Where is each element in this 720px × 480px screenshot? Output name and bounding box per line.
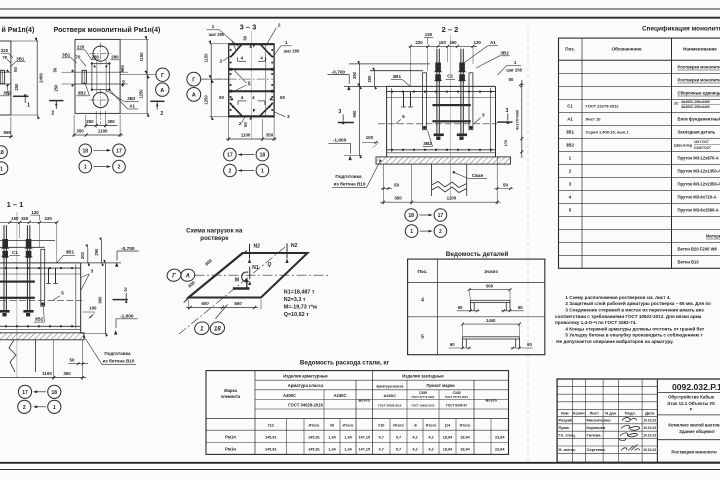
svg-text:18: 18 — [0, 150, 4, 156]
svg-text:А: А — [160, 88, 164, 94]
section mark 2 right — [150, 100, 164, 102]
dim arrows left view1 — [6, 69, 10, 72]
dim 1100 350 1-1 — [53, 340, 55, 380]
svg-text:4: 4 — [421, 298, 424, 304]
anchor bolt right 2-2 — [460, 49, 462, 134]
svg-text:элемента: элемента — [221, 394, 241, 399]
pile circle top — [93, 46, 108, 61]
svg-text:3В2: 3В2 — [127, 96, 136, 101]
svg-text:600: 600 — [486, 284, 494, 289]
svg-text:ГОСТ 34028-2016: ГОСТ 34028-2016 — [378, 403, 402, 407]
svg-text:Ведомость деталей: Ведомость деталей — [446, 250, 509, 258]
svg-text:280: 280 — [111, 55, 119, 60]
svg-text:18: 18 — [260, 153, 266, 159]
svg-text:Обозначение: Обозначение — [611, 46, 641, 52]
bent bar bottom-left — [231, 104, 242, 116]
bolt bottom plate left 1-1 — [0, 310, 10, 313]
svg-text:Итого: Итого — [393, 424, 404, 428]
extension lines top 2-2 — [410, 47, 412, 86]
axis circle 1 1-1 — [48, 400, 61, 413]
svg-text:Блок фундаментный: Блок фундаментный — [678, 117, 720, 122]
svg-text:3: 3 — [338, 109, 341, 115]
svg-text:18: 18 — [52, 390, 58, 396]
svg-text:1,34: 1,34 — [344, 448, 352, 452]
svg-text:10.10.23: 10.10.23 — [643, 419, 656, 423]
svg-text:С1: С1 — [567, 104, 573, 109]
svg-text:130: 130 — [425, 32, 433, 37]
svg-text:130: 130 — [31, 210, 39, 215]
svg-text:150: 150 — [11, 216, 19, 221]
load scheme plate — [188, 253, 307, 298]
svg-text:Сергеева: Сергеева — [587, 447, 606, 452]
svg-text:2: 2 — [160, 111, 163, 117]
spec table verticals — [581, 38, 583, 268]
svg-text:145,81: 145,81 — [308, 436, 320, 440]
spec table row lines — [559, 72, 720, 74]
rebar dots 3-3 edges — [230, 49, 232, 51]
svg-text:Пруток М3-12х2350-А: Пруток М3-12х2350-А — [678, 182, 720, 187]
svg-text:#6: #6 — [330, 424, 334, 428]
load scheme horiz axis — [195, 274, 331, 276]
svg-text:220: 220 — [77, 45, 85, 50]
bolt cross plate upper 1-1 — [0, 281, 34, 283]
svg-text:220: 220 — [415, 40, 423, 45]
fold mark dashed line — [527, 18, 529, 462]
svg-text:Не допускается опирание вибрат: Не допускается опирание вибраторов на ар… — [556, 338, 673, 344]
svg-text:3: 3 — [91, 269, 94, 275]
svg-text:18,94: 18,94 — [460, 436, 470, 440]
plan2 lower dims row2 — [73, 134, 123, 136]
svg-text:Лист 10: Лист 10 — [586, 117, 602, 122]
axis circle 2 1-1 — [18, 400, 31, 413]
section 3-3 cut trace — [250, 31, 252, 139]
svg-text:3В2: 3В2 — [78, 90, 87, 95]
svg-text:290: 290 — [94, 248, 99, 256]
svg-text:1440: 1440 — [486, 318, 496, 323]
svg-text:Всего: Всего — [359, 398, 371, 403]
svg-text:шаг 200: шаг 200 — [284, 48, 300, 53]
axis circle 2 2-2 — [434, 225, 447, 238]
svg-text:3В1: 3В1 — [62, 53, 71, 58]
pile circle bottom — [93, 92, 108, 107]
axis arrow 18-17 1-1 — [34, 391, 47, 393]
anchor bolt square plan — [92, 64, 110, 90]
svg-text:5: 5 — [61, 290, 64, 296]
axis arrow 18-17 3-3 — [238, 154, 254, 156]
axis circle 17 1-1 — [18, 385, 31, 398]
svg-text:[14: [14 — [445, 424, 451, 428]
axis circle 18 2-2 — [405, 209, 418, 222]
dim 1100 350 3-3 — [228, 117, 230, 141]
svg-text:А1: А1 — [490, 40, 496, 45]
svg-text:4А400С-200х4400: 4А400С-200х4400 — [681, 105, 710, 109]
axis circle G 3-3 — [187, 72, 201, 86]
svg-text:Поз.: Поз. — [417, 269, 427, 275]
svg-text:50: 50 — [394, 182, 399, 187]
svg-text:Подготовка: Подготовка — [104, 351, 131, 356]
anchor bolt right 1-1 — [26, 225, 28, 310]
axis circle 18 view1 — [0, 146, 7, 159]
moment M arc — [242, 272, 249, 282]
svg-text:4х170=680: 4х170=680 — [514, 109, 519, 130]
svg-text:Закладная деталь: Закладная деталь — [678, 130, 716, 135]
svg-text:Пруток М3-6х1560-А: Пруток М3-6х1560-А — [678, 208, 719, 213]
axis circle 2 plan2 — [113, 160, 126, 173]
steel table frame — [206, 371, 509, 455]
svg-text:50: 50 — [219, 95, 224, 100]
details row5 dim60 right — [511, 347, 534, 349]
svg-text:2: 2 — [118, 165, 121, 171]
svg-text:Обустройство Кабык: Обустройство Кабык — [668, 395, 715, 400]
rebar line top1 1-1 — [0, 267, 81, 269]
svg-text:50: 50 — [503, 182, 508, 187]
svg-text:900: 900 — [352, 110, 357, 118]
axis arrow 1-2 3-3 — [238, 170, 254, 172]
details row4 dim600 — [469, 289, 510, 291]
svg-text:Лист: Лист — [589, 410, 598, 415]
dim arrows plan2 left — [71, 69, 75, 72]
svg-text:220: 220 — [45, 216, 53, 221]
diag extension line — [216, 305, 228, 319]
section mark 2 left — [49, 100, 63, 102]
svg-text:147,15: 147,15 — [358, 448, 370, 452]
svg-text:0,7: 0,7 — [379, 448, 384, 452]
load scheme column base — [233, 287, 250, 289]
bent bar hook top-left — [238, 60, 246, 62]
details row5 sketch bar — [463, 337, 520, 339]
svg-text:5: 5 — [421, 335, 424, 341]
svg-text:23,84: 23,84 — [495, 436, 505, 440]
svg-text:200: 200 — [80, 251, 85, 259]
svg-text:3: 3 — [124, 287, 127, 293]
svg-text:Швеллер: Швеллер — [674, 143, 693, 148]
axis circle G sketch — [166, 268, 182, 283]
svg-text:950: 950 — [4, 130, 12, 135]
svg-text:1150: 1150 — [204, 53, 209, 63]
signature 4 — [621, 445, 639, 451]
force N2 left — [249, 244, 251, 259]
svg-text:А: А — [192, 93, 196, 99]
section 2-2 cut trace — [449, 35, 451, 200]
svg-text:А: А — [185, 274, 190, 280]
details row5 dim1440 — [463, 323, 520, 325]
plan2 lower dims row1 — [85, 125, 117, 127]
section 2-2 body outline — [387, 85, 496, 87]
axis circle 17 3-3 — [224, 148, 237, 161]
svg-text:Пруток М3-12х870-А: Пруток М3-12х870-А — [678, 156, 719, 161]
section 2-2 top dims — [409, 45, 477, 47]
svg-text:А1: А1 — [567, 117, 573, 122]
svg-text:3В1: 3В1 — [66, 250, 75, 255]
svg-text:5 Укладку бетона в опалубку пр: 5 Укладку бетона в опалубку производить … — [565, 332, 703, 338]
svg-text:Комплекс жилой вахтов: Комплекс жилой вахтов — [668, 422, 720, 427]
force N1 — [249, 267, 251, 280]
svg-text:350: 350 — [266, 133, 274, 138]
svg-text:Q: Q — [267, 262, 271, 268]
plan Rm1p beam band lines — [0, 71, 11, 73]
svg-text:Ведомость расхода стали, кг: Ведомость расхода стали, кг — [300, 360, 390, 367]
section 1-1 body outline — [0, 262, 81, 264]
svg-text:1,34: 1,34 — [328, 436, 336, 440]
svg-text:147,15: 147,15 — [358, 436, 370, 440]
svg-text:300: 300 — [107, 119, 115, 124]
svg-text:290: 290 — [352, 71, 357, 79]
anchor bolt left 2-2 — [436, 49, 438, 134]
svg-text:60: 60 — [450, 342, 455, 347]
axis circle 18 3-3 — [256, 148, 269, 161]
details row5 dim60 left — [449, 347, 472, 349]
axis circle 18 sketch — [209, 320, 226, 336]
bolt cross plate lower 1-1 — [0, 297, 34, 299]
axis circle 1 plan2 — [79, 160, 92, 173]
svg-text:Пруток М3-6х720-А: Пруток М3-6х720-А — [678, 195, 717, 200]
svg-text:Подп.: Подп. — [625, 410, 636, 415]
svg-text:Итого: Итого — [309, 424, 320, 428]
svg-text:А400С: А400С — [384, 393, 397, 398]
extension lines top 1-1 — [56, 223, 58, 263]
section mark 1 lower — [13, 95, 28, 97]
beam band lines plan — [75, 71, 120, 73]
section 3-3 bottom bar — [229, 115, 274, 117]
svg-text:#12: #12 — [268, 424, 274, 428]
svg-text:250: 250 — [14, 83, 19, 91]
svg-text:1: 1 — [212, 24, 215, 29]
axis arrow 18-17 — [94, 149, 111, 151]
svg-text:Прокат марки: Прокат марки — [426, 383, 455, 388]
svg-text:17: 17 — [22, 390, 28, 396]
svg-text:1100: 1100 — [447, 195, 457, 200]
svg-text:10.10.23: 10.10.23 — [643, 433, 656, 437]
svg-text:-8: -8 — [413, 424, 416, 428]
svg-text:1250: 1250 — [204, 95, 209, 105]
svg-text:Изделия закладные: Изделия закладные — [402, 374, 444, 379]
svg-text:100: 100 — [366, 135, 374, 140]
sheet frame bottom thin line — [0, 469, 720, 471]
svg-text:Сборочные единицы: Сборочные единицы — [678, 91, 720, 96]
bent bar top-left — [231, 45, 242, 57]
rebar line bottom2 1-1 — [0, 328, 81, 330]
ref line upper 1-1 — [0, 240, 55, 242]
svg-text:130: 130 — [474, 40, 482, 45]
svg-text:2: 2 — [51, 110, 54, 116]
svg-text:из бетона В10: из бетона В10 — [334, 181, 366, 187]
dim 900 1-1 — [105, 263, 107, 334]
ref line lower 1-1 — [0, 246, 45, 248]
svg-text:Ростверк монолитный Рм1н(4): Ростверк монолитный Рм1н(4) — [54, 26, 161, 34]
svg-text:шаг 200: шаг 200 — [506, 68, 522, 73]
bolt bottom plate right 1-1 — [23, 310, 33, 313]
axis arrow 18-17 2-2 — [419, 214, 432, 216]
axis circle 18 1-1 — [48, 385, 61, 398]
ref line upper 2-2 — [349, 63, 430, 65]
steel table verticals — [254, 371, 256, 455]
dim 200 2-2 — [374, 71, 376, 87]
svg-text:4 Концы стержней арматуры долж: 4 Концы стержней арматуры должны отстоят… — [565, 325, 704, 331]
plan Rm1p outline — [0, 41, 11, 115]
svg-text:3: 3 — [482, 112, 485, 118]
details table header row — [408, 281, 545, 283]
rebar line bottom1 2-2 — [387, 149, 496, 151]
svg-text:Дата: Дата — [645, 410, 655, 415]
svg-text:2 – 2: 2 – 2 — [442, 25, 459, 34]
svg-text:50: 50 — [13, 67, 18, 72]
channel 3V2 1-1 — [41, 249, 45, 306]
svg-text:3В1: 3В1 — [16, 57, 25, 62]
svg-text:Ростверки монолитн: Ростверки монолитн — [671, 450, 717, 455]
svg-text:600: 600 — [201, 301, 209, 306]
section 1-1 top dims — [0, 221, 58, 223]
axis circle 1 sketch — [193, 320, 210, 336]
svg-text:4,2: 4,2 — [428, 436, 433, 440]
axis arrow 1-2 2-2 — [420, 230, 432, 232]
svg-text:3: 3 — [506, 108, 509, 114]
svg-text:Здание общежит: Здание общежит — [679, 429, 715, 434]
section 3-3 inner vertical — [265, 44, 267, 117]
signature 1 — [622, 418, 637, 422]
svg-text:ГОСТ 19903-2015: ГОСТ 19903-2015 — [411, 403, 435, 407]
dim 290 1-1 — [101, 241, 103, 263]
svg-text:250: 250 — [86, 119, 94, 124]
section 3-3 axis line — [201, 78, 274, 80]
svg-text:1100: 1100 — [98, 129, 108, 134]
axis dash line 1-1 — [0, 299, 82, 301]
svg-text:2: 2 — [239, 121, 242, 127]
axis circle 18 plan2 — [79, 144, 92, 157]
signature 2 — [621, 425, 640, 430]
svg-text:145,81: 145,81 — [265, 436, 277, 440]
svg-text:А240С: А240С — [333, 393, 346, 398]
rebar line top2 2-2 — [387, 97, 496, 99]
hatched blinding layer 2-2 — [376, 157, 511, 164]
dim 200 1-1 — [87, 247, 89, 263]
svg-text:3В2: 3В2 — [500, 50, 509, 55]
svg-text:900: 900 — [98, 296, 103, 304]
svg-text:N2: N2 — [291, 243, 298, 249]
axis circle A 3-3 — [187, 88, 201, 102]
details table frame — [408, 259, 545, 355]
svg-text:проволоку 1,4-О-Ч по ГОСТ 3282: проволоку 1,4-О-Ч по ГОСТ 3282-74. — [555, 320, 637, 325]
details row4 dim60 right — [501, 310, 524, 312]
svg-text:70: 70 — [2, 55, 7, 60]
svg-text:10.10.23: 10.10.23 — [643, 448, 656, 452]
axis circle 1 view1 — [0, 162, 8, 175]
svg-text:18: 18 — [83, 148, 89, 154]
axis circle G plan2 — [156, 68, 169, 81]
svg-text:0092.032.Р.1: 0092.032.Р.1 — [672, 382, 720, 392]
details table col divider — [436, 259, 438, 355]
svg-text:4,2: 4,2 — [412, 448, 417, 452]
axis circle 2 3-3 — [224, 164, 237, 177]
details table row divider — [408, 316, 545, 318]
channel 3V2 right 2-2 — [469, 73, 473, 130]
svg-text:350: 350 — [394, 195, 402, 200]
hatched blinding layer 1-1 — [0, 333, 84, 340]
bent bar top-right — [261, 45, 272, 57]
svg-text:100: 100 — [89, 306, 97, 311]
svg-text:200: 200 — [367, 75, 372, 83]
svg-text:3В1: 3В1 — [566, 130, 575, 135]
svg-text:145,81: 145,81 — [265, 448, 277, 452]
svg-text:Гилева: Гилева — [587, 432, 602, 437]
svg-text:А400С: А400С — [283, 393, 296, 398]
svg-text:600: 600 — [234, 301, 242, 306]
bent bar hook bottom-left — [238, 100, 246, 102]
svg-text:1250: 1250 — [139, 89, 144, 99]
svg-text:18: 18 — [214, 327, 221, 333]
svg-text:1100: 1100 — [241, 133, 251, 138]
svg-text:10.10.23: 10.10.23 — [643, 426, 656, 430]
svg-text:3В2: 3В2 — [3, 91, 12, 96]
svg-text:17: 17 — [227, 153, 233, 159]
svg-text:18,94: 18,94 — [443, 436, 453, 440]
axis circle A sketch — [180, 268, 196, 283]
svg-text:3: 3 — [287, 114, 290, 120]
dim 1150 1250 3-3 — [209, 43, 228, 45]
svg-text:Подготовка: Подготовка — [335, 174, 362, 179]
embed plate 3V2 plan left — [82, 70, 86, 83]
bolt cross plate lower 2-2 — [433, 120, 470, 122]
svg-text:150: 150 — [439, 40, 447, 45]
plan Rm1n outline — [75, 39, 120, 113]
bottom dim load scheme — [187, 300, 189, 310]
axis dash line 2-2 — [378, 123, 497, 125]
svg-text:Бетон В10: Бетон В10 — [678, 260, 700, 265]
ref line lower 2-2 — [370, 70, 423, 72]
bolt bottom plate right 2-2 — [457, 134, 467, 137]
svg-text:Эскиз: Эскиз — [484, 269, 498, 275]
svg-text:Г: Г — [172, 274, 176, 280]
svg-text:3 – 3: 3 – 3 — [240, 23, 257, 32]
svg-text:С345 ГОСТ: С345 ГОСТ — [694, 146, 711, 150]
svg-text:N2: N2 — [254, 243, 261, 249]
sheet frame top thick line — [0, 17, 720, 19]
svg-text:3В2: 3В2 — [566, 143, 575, 148]
svg-text:18,94: 18,94 — [443, 448, 453, 452]
svg-text:Этап 12.1 Объекты УК: Этап 12.1 Объекты УК — [667, 401, 715, 406]
svg-text:Марка: Марка — [224, 388, 238, 393]
svg-text:Рм1п: Рм1п — [225, 435, 236, 440]
axis arrow 1-2 1-1 — [34, 406, 47, 408]
svg-text:соответствии с требованиями: соответствии с требованиями ГОСТ 10922-2… — [555, 313, 702, 319]
svg-text:50: 50 — [53, 67, 58, 72]
svg-text:С1: С1 — [12, 250, 18, 255]
title block left verticals — [571, 379, 573, 462]
load scheme diag axis — [179, 246, 286, 334]
signature 3 — [619, 433, 637, 440]
svg-text:2: 2 — [439, 229, 442, 235]
svg-text:60: 60 — [527, 342, 532, 347]
sheet frame bottom thick line — [0, 462, 720, 464]
svg-text:Схема нагрузок на: Схема нагрузок на — [186, 228, 243, 235]
svg-text:из бетона В10: из бетона В10 — [103, 357, 135, 363]
svg-text:Итого: Итого — [426, 424, 437, 428]
svg-text:50: 50 — [243, 122, 248, 127]
svg-text:Изделия арматурные: Изделия арматурные — [283, 374, 328, 379]
svg-text:Разраб.: Разраб. — [559, 418, 574, 423]
bolt cross plate upper 2-2 — [433, 104, 470, 106]
svg-text:Бетон В20 F200 W6: Бетон В20 F200 W6 — [678, 247, 718, 252]
svg-text:70: 70 — [76, 55, 81, 60]
svg-text:N док: N док — [605, 410, 616, 415]
svg-text:2С: 2С — [674, 102, 679, 106]
dim 1150 1250 plan2 — [120, 38, 149, 40]
svg-text:Серия 1.400-15, вып.1: Серия 1.400-15, вып.1 — [586, 130, 630, 135]
svg-text:1: 1 — [514, 60, 517, 65]
section 3-3 top bar — [229, 43, 274, 45]
sheet frame top thin line — [0, 8, 720, 10]
left vertical bar 2-2 — [391, 88, 393, 152]
svg-text:Н. контр.: Н. контр. — [559, 447, 576, 452]
